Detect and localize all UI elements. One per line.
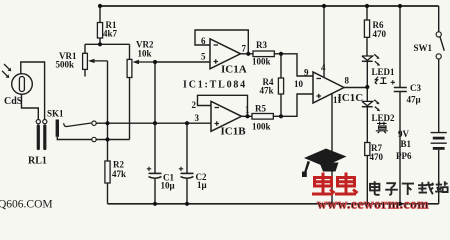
svg-text:47k: 47k [112,169,126,179]
svg-text:SW1: SW1 [414,43,433,53]
svg-text:1μ: 1μ [197,180,207,190]
svg-text:100k: 100k [252,122,271,132]
svg-text:9: 9 [304,68,309,78]
wire node X to IC1C pin9 [281,54,313,76]
watermark char 虫 first [312,173,335,195]
watermark char 虫 second [335,173,358,195]
node R1 bottom [98,42,102,46]
svg-text:IC1C: IC1C [338,92,364,104]
resistor R2 [105,161,110,204]
svg-text:500k: 500k [56,60,75,70]
node ground C3 [398,202,402,206]
wire CdS bottom lead to RL1 left contact [22,94,39,119]
potentiometer VR1 [83,44,108,76]
resistor R3 [253,51,281,57]
node X R3-R4 [279,52,283,56]
node row1 wiper column [105,121,109,125]
switch SW1 [436,6,444,132]
svg-text:6: 6 [201,36,206,46]
label LED2 colour yellow char 黄 [376,122,388,134]
node ground pin11 [330,202,334,206]
svg-text:LED1: LED1 [372,67,396,77]
wire IC1C output pin8 to LED node [344,87,367,89]
watermark text 电子下载站 [370,181,448,195]
svg-text:10: 10 [294,79,304,89]
wire CdS top lead to RL1 right contact [21,62,45,120]
wire VR1 wiper down through SK1 rows to R2 [107,61,109,161]
svg-text:47k: 47k [260,86,274,96]
watermark logo graduation cap [302,149,347,178]
svg-text:R5: R5 [255,104,266,114]
node ground C1 [153,202,157,206]
svg-text:R2: R2 [113,160,124,170]
node ground R7 [365,202,369,206]
op-amp U1C IC1C [313,72,344,103]
svg-text:9V: 9V [398,129,410,139]
resistor R5 [252,114,281,120]
node LED output [365,85,369,89]
svg-text:B1: B1 [401,139,412,149]
node R1 top rail [98,4,102,8]
wire IC1C pin4 from top rail [323,6,325,77]
wire row1 to IC1B pin3 [96,122,211,124]
node C3 rail [398,4,402,8]
wire IC1B pin2 and feedback loop [198,95,248,116]
svg-text:7: 7 [242,44,247,54]
svg-text:IC1B: IC1B [221,126,247,138]
capacitor C3 [391,6,407,204]
photoresistor CdS [2,64,32,94]
svg-text:CdS: CdS [4,96,23,107]
node VR2 wiper [153,60,157,64]
wire IC1C pin11 to ground rail [331,93,333,203]
switch lever SK1 row1 [64,123,92,127]
wire LED1 cathode to LED2 anode [366,61,368,101]
potentiometer VR2 [127,44,155,77]
wire IC1B output pin1 to R5 [242,115,253,117]
capacitor C1 [147,167,162,204]
jack plug SK1 sleeve bar [56,120,59,137]
resistor R1 [97,6,102,44]
wire node Y to IC1C pin10 [281,94,313,116]
op-amp U1B IC1B [211,101,242,131]
resistor R6 [364,6,369,56]
svg-text:IC1:TL084: IC1:TL084 [183,80,247,91]
svg-text:PP6: PP6 [396,151,412,161]
node Y R5-R4 [279,114,283,118]
wire SK1 bottom row2 to VR2 bottom [57,137,129,140]
svg-text:47μ: 47μ [407,95,421,105]
node row1 C2 column [185,121,189,125]
LED LED1 [362,54,380,66]
svg-text:470: 470 [373,29,387,39]
svg-text:3: 3 [195,113,200,123]
node IC1B feedback output [245,114,249,118]
wire R1 bottom to VR1/VR2 tops [85,43,130,45]
svg-text:8: 8 [345,76,350,86]
node IC1A feedback output [246,52,250,56]
svg-text:10μ: 10μ [161,181,175,191]
resistor R4 [278,54,283,117]
wire VR2 wiper down to C1 and to IC1A pin5 [155,62,210,173]
svg-text:4k7: 4k7 [103,29,118,39]
op-amp U1A IC1A [210,39,241,69]
svg-text:www.eeworm.com: www.eeworm.com [317,197,429,212]
contact circle SK1 row2 [92,137,96,141]
node row1 C1 column [153,121,157,125]
svg-text:RL1: RL1 [28,156,47,167]
node ground C2 [185,202,189,206]
wire bottom ground rail [108,203,439,205]
node IC1C pin4 rail [322,4,326,8]
LED LED2 [362,100,380,112]
wire IC1A output pin7 to R3 [241,53,254,55]
svg-text:IC1A: IC1A [221,64,247,76]
capacitor C2 [179,123,194,204]
wire top supply rail [100,5,439,7]
wire VR2 bottom down to SK1 row2 (crosses row1) [129,78,131,140]
svg-text:4: 4 [321,63,326,73]
svg-text:470: 470 [370,152,384,162]
svg-text:SK1: SK1 [47,109,64,119]
battery B1 [431,133,447,204]
svg-text:1: 1 [245,105,250,115]
contact circle SK1 row1 [92,121,96,125]
svg-text:2: 2 [192,100,197,110]
svg-text:LED2: LED2 [372,113,396,123]
svg-text:C3: C3 [410,83,421,93]
svg-text:R3: R3 [256,40,267,50]
svg-text:5: 5 [201,52,206,62]
relay contact RL1 right pin [43,120,47,149]
wire IC1A pin6 and feedback loop [195,30,248,54]
svg-text:100k: 100k [252,57,271,67]
relay contact RL1 left pin [36,120,40,149]
svg-text:Q606.COM: Q606.COM [0,199,53,211]
resistor R7 [365,107,370,204]
label LED1 colour red char 红 [375,77,387,84]
svg-text:10k: 10k [138,49,152,59]
node R6 rail [365,4,369,8]
node row2 wiper column [105,137,109,141]
